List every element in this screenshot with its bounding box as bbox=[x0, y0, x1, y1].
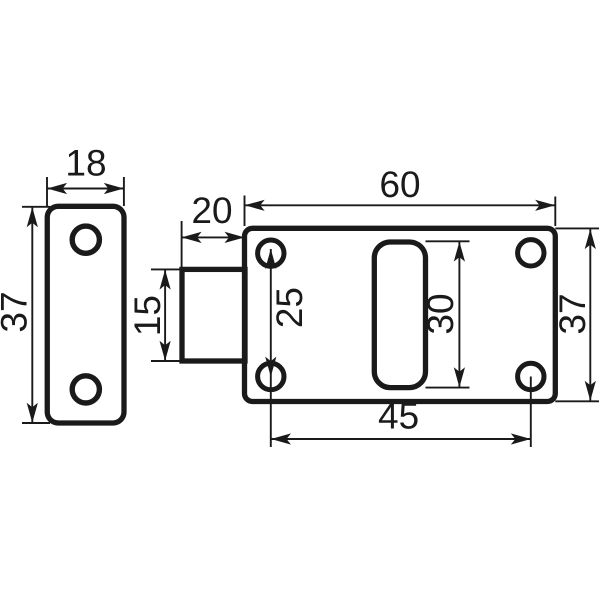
arrow dim37R bottom bbox=[585, 381, 596, 401]
arrow dim15 top bbox=[160, 270, 171, 290]
arrow dim20 left bbox=[182, 232, 202, 243]
dim 60 extension right bbox=[554, 197, 556, 227]
arrow dim60 right bbox=[535, 200, 555, 211]
label 45 bbox=[379, 403, 418, 429]
dim 15 extension top bbox=[151, 268, 183, 270]
dim 25 line and 45 extension left bbox=[270, 249, 272, 447]
arrow dim37L bottom bbox=[27, 403, 38, 423]
keeper plate hole bottom bbox=[72, 376, 99, 403]
main lock body outline bbox=[245, 228, 556, 401]
label 15 bbox=[135, 297, 161, 334]
label 20 bbox=[193, 197, 231, 223]
dim 37 left extension bottom bbox=[22, 422, 50, 424]
dim 15 line bbox=[164, 270, 166, 361]
dim 30 extension top bbox=[426, 240, 470, 242]
arrow dim37L top bbox=[27, 207, 38, 227]
label 60 bbox=[381, 171, 419, 197]
arrow dim30 top bbox=[454, 242, 465, 262]
arrow dim45 left bbox=[271, 433, 291, 444]
dim 45 extension right bbox=[530, 377, 532, 448]
dim 45 line bbox=[271, 438, 531, 440]
dim 37 left extension top bbox=[22, 206, 50, 208]
keeper plate hole top bbox=[72, 226, 99, 253]
label 37 right bbox=[559, 295, 585, 333]
arrow dim18 left bbox=[47, 183, 67, 194]
body hole bottom-left bbox=[258, 363, 284, 389]
arrow dim25 bottom bbox=[265, 357, 276, 377]
arrow dim18 right bbox=[104, 183, 124, 194]
dim 30 extension bottom bbox=[426, 387, 470, 389]
left keeper plate outline bbox=[47, 206, 124, 423]
label 25 bbox=[276, 289, 302, 327]
body hole top-left bbox=[258, 240, 284, 266]
arrow dim60 left bbox=[245, 200, 265, 211]
arrow dim30 bottom bbox=[454, 367, 465, 387]
label 18 bbox=[68, 150, 105, 176]
central slot bbox=[374, 242, 425, 388]
arrow dim37R top bbox=[585, 229, 596, 249]
dim 37 right line bbox=[589, 229, 591, 401]
dim 20 extension left bbox=[181, 221, 183, 267]
arrow dim15 bottom bbox=[160, 341, 171, 361]
dim 18 extension line left bbox=[46, 177, 48, 206]
arrow dim25 top bbox=[265, 249, 276, 269]
dim 18 line bbox=[47, 188, 124, 190]
dim 37 right extension bottom bbox=[555, 400, 599, 402]
arrow dim20 right bbox=[225, 232, 245, 243]
label 30 bbox=[427, 295, 453, 333]
dim 18 extension line right bbox=[123, 177, 125, 206]
dim 20 line bbox=[182, 236, 245, 238]
dim 30 line bbox=[458, 242, 460, 388]
dim 15 extension bottom bbox=[151, 360, 183, 362]
dim 60 extension left bbox=[244, 196, 246, 227]
bolt rectangle bbox=[182, 269, 245, 361]
dim 37 left line bbox=[31, 207, 33, 423]
dim 37 right extension top bbox=[555, 227, 599, 229]
body hole bottom-right bbox=[518, 363, 544, 389]
body hole top-right bbox=[518, 240, 544, 266]
dim 60 line bbox=[245, 204, 555, 206]
label 37 left bbox=[1, 293, 27, 331]
arrow dim45 right bbox=[511, 433, 531, 444]
